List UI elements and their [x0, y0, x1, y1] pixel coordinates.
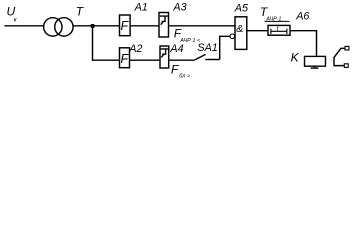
contact K terminal square bottom — [344, 64, 348, 68]
inversion circle at A5 lower input — [230, 34, 235, 39]
svg-text:A3: A3 — [172, 1, 186, 13]
relay characteristic symbol in A3 — [160, 16, 168, 25]
svg-text:A6: A6 — [295, 11, 309, 23]
svg-text:F: F — [171, 62, 179, 76]
switch SA1 fixed contact wire — [205, 59, 220, 61]
svg-text:A5: A5 — [234, 3, 249, 15]
svg-text:A1: A1 — [134, 1, 148, 13]
wire SA1 up to A5 inverted input — [220, 36, 230, 59]
wire A2 to A4 — [130, 59, 161, 61]
svg-text:SA1: SA1 — [197, 42, 217, 54]
label F_ACHR1< under A3 — [174, 26, 201, 44]
relay coil bottom terminal bar — [311, 67, 319, 69]
block A1 frequency element — [120, 15, 131, 36]
wire A3 to A5 — [169, 25, 236, 27]
transformer T winding 2 — [55, 18, 73, 36]
contact K blade and fixed side — [334, 48, 345, 65]
svg-text:&: & — [236, 23, 243, 35]
wire A6 to relay K — [290, 31, 317, 57]
wire A1 to A3 — [130, 25, 159, 27]
label T_ACHR1 above A6 — [260, 5, 282, 22]
svg-text:бл >: бл > — [179, 73, 191, 79]
underline of T_ACHR1 label — [265, 20, 290, 22]
junction node dot — [91, 24, 95, 28]
relay characteristic symbol in A4 — [161, 49, 169, 58]
block A5 AND gate — [235, 17, 247, 50]
wire Uk to transformer — [5, 25, 44, 27]
transformer T winding 1 — [44, 18, 62, 36]
svg-text:A2: A2 — [128, 43, 142, 55]
contact K terminal square top — [345, 46, 349, 50]
time symbol in A6 — [271, 29, 287, 34]
relay coil K — [305, 56, 326, 66]
wire junction down to bottom row — [93, 26, 120, 60]
svg-text:A4: A4 — [169, 43, 183, 55]
wire A4 to switch SA1 — [169, 59, 194, 61]
label F_bl> under A4 — [171, 62, 191, 79]
wire transformer to A1 — [73, 25, 119, 27]
wire A5 output to A6 — [247, 30, 268, 32]
block A2 frequency element — [120, 48, 130, 68]
block A6 time delay element — [268, 25, 290, 35]
svg-text:K: K — [291, 51, 300, 65]
block A4 blocking threshold element — [160, 46, 169, 68]
relay coil bottom terminal stub — [314, 66, 316, 67]
block A3 threshold element — [159, 13, 169, 38]
switch SA1 blade — [193, 54, 205, 60]
node Uk input label — [7, 4, 18, 23]
